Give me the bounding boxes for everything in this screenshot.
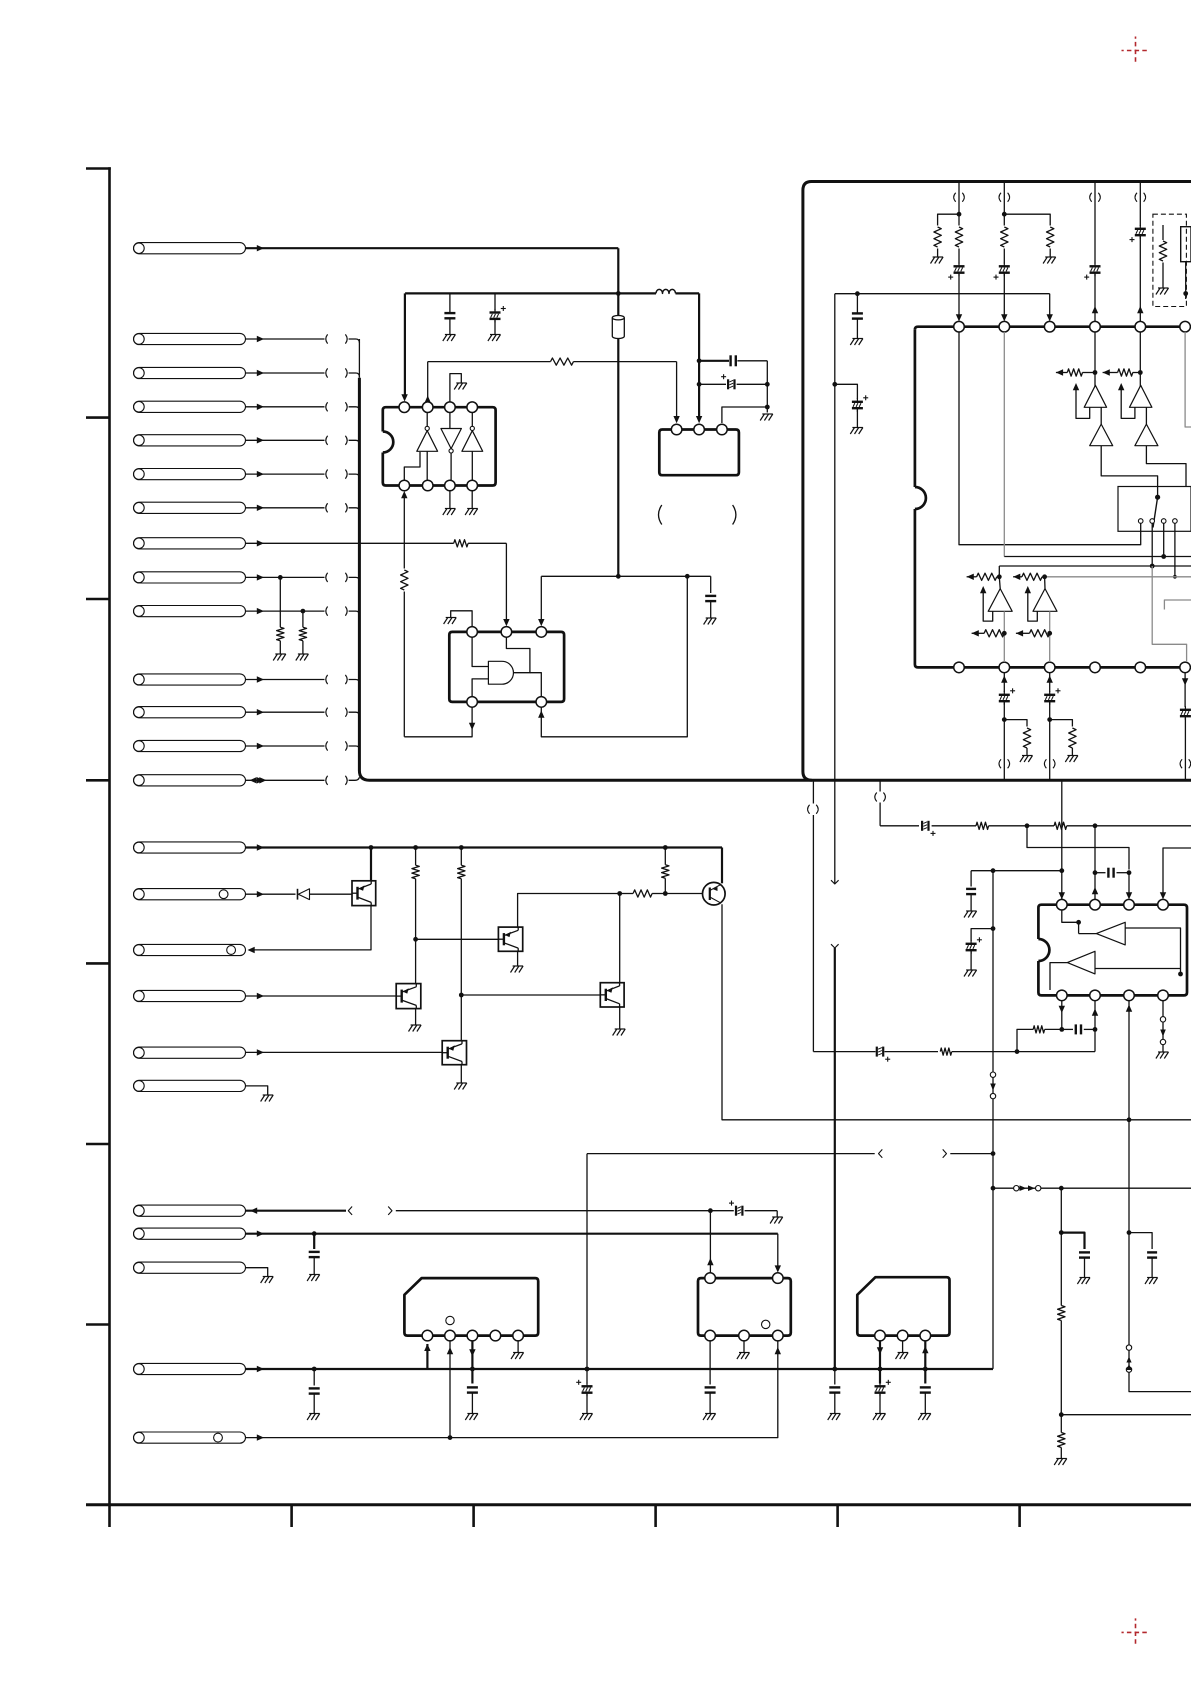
wire drop B [1003, 182, 1005, 226]
wire bias line 825 [880, 825, 919, 827]
wire pinB column [1003, 332, 1005, 557]
resistor R22 [1058, 1306, 1065, 1321]
connector pin P20 [134, 1080, 246, 1091]
wire node 587 [586, 1154, 588, 1384]
junction [1127, 1230, 1132, 1235]
jumper J2 [1014, 1186, 1019, 1191]
wire IC7 pin b3 to P25 [246, 1341, 778, 1438]
ground [309, 1274, 320, 1276]
wire P9 to bus [246, 576, 325, 578]
IC4 pin top 4 [1090, 321, 1101, 332]
wire [766, 361, 768, 413]
ground [706, 617, 717, 619]
IC2 pin3 top [536, 627, 547, 638]
wire Q7 emitter [460, 1065, 462, 1083]
IC8 pin 1 [875, 1330, 886, 1341]
connector pin P24 [134, 1363, 246, 1374]
border frame bottom tick [1018, 1505, 1021, 1527]
junction [991, 868, 996, 873]
wire Q8 collector [619, 894, 621, 983]
op-amp A2b [1135, 424, 1158, 446]
wire [998, 566, 1000, 577]
ground [1056, 1458, 1067, 1460]
wire P13 to bus [246, 745, 325, 747]
capacitor C26 electrolytic [586, 1383, 588, 1387]
wire Q1 collector [370, 848, 372, 881]
connector pin P19 [134, 1047, 246, 1058]
junction [312, 1367, 317, 1372]
wire P7 to bus [246, 507, 325, 509]
junction [765, 405, 770, 410]
wire P23 [246, 1268, 268, 1276]
IC4 trim row 1 [1056, 369, 1063, 375]
break [1044, 759, 1046, 768]
resistor R3 [551, 358, 574, 365]
junction [369, 845, 374, 850]
wire P18 to Q5 base [246, 995, 397, 997]
op-amp A6 [1067, 951, 1095, 974]
resistor R14 [1001, 227, 1008, 247]
wire P1 VCC line [246, 247, 619, 249]
wire bus 554 [1004, 556, 1191, 558]
resistor R7 [412, 865, 419, 879]
IC5 internal wires [1062, 910, 1079, 922]
junction [832, 382, 837, 387]
IC2 pin1 top [467, 627, 478, 638]
ground [263, 1094, 274, 1096]
IC1 pin7 bottom [445, 480, 456, 491]
wire to IC3 pin1 [574, 361, 677, 363]
wire IC6 pin2 [449, 1341, 451, 1438]
signal line 1051 [813, 1051, 875, 1053]
IC2 internal wires [472, 637, 488, 666]
wire VDD column break [834, 780, 836, 884]
wire [1049, 249, 1051, 257]
wire Q2 emitter long [722, 904, 1191, 1120]
wire branch [938, 214, 959, 225]
junction [470, 1367, 475, 1372]
junction [459, 845, 464, 850]
wire IC5 pin b4 jumper [1162, 1001, 1164, 1017]
wire to IC5 pin3 [1027, 826, 1129, 870]
junction [685, 574, 690, 579]
wire [1094, 272, 1096, 321]
connector pin P12 [134, 707, 246, 718]
IC6 pin 5 [513, 1330, 524, 1341]
IC5 body [1038, 905, 1187, 996]
wire column 1061 [1060, 1188, 1062, 1305]
IC4 trim row 3 [972, 630, 979, 636]
wire IC1 pin2 out [427, 362, 429, 401]
wire [302, 611, 304, 627]
IC5 pin top 2 [1090, 899, 1101, 910]
wire gray col1 [1003, 611, 1005, 662]
capacitor C1 [449, 293, 451, 313]
wire node column 993 [992, 871, 994, 1072]
wire Q8 emitter [619, 1007, 621, 1029]
IC2 pin5 bottom [536, 697, 547, 708]
branch resistor R17 [1050, 720, 1073, 727]
wire branch [971, 870, 1062, 872]
wire to IC7 pin t2 [777, 1234, 779, 1270]
wire [958, 272, 960, 318]
junction [1059, 868, 1064, 873]
wire [1094, 873, 1096, 900]
resistor R15 [1162, 225, 1164, 240]
ground [298, 653, 309, 655]
IC8 body [857, 1277, 949, 1335]
wire R7 branch [415, 848, 417, 866]
wire VDD vertical [834, 294, 836, 781]
label parenthesis left [659, 505, 662, 525]
wire drop A [958, 182, 960, 226]
shield block right border [803, 182, 1191, 781]
branch cap [1061, 1233, 1084, 1249]
IC1 pin5 bottom [399, 480, 410, 491]
IC6 body [404, 1278, 538, 1336]
wire to IC5 pin1 [1061, 780, 1063, 899]
op-amp A2 [1130, 385, 1152, 407]
resistor R4 [401, 570, 408, 590]
junction [312, 1231, 317, 1236]
junction [413, 845, 418, 850]
capacitor C9 electrolytic [1139, 225, 1141, 229]
wire IC1 pin3 ground [450, 374, 461, 402]
inner box [1181, 227, 1191, 262]
junction [1059, 1230, 1064, 1235]
IC5 pin top 4 [1158, 899, 1169, 910]
wire Q3 emitter [517, 951, 519, 965]
junction [459, 993, 464, 998]
registration mark [1122, 37, 1150, 65]
IC6 pin 1 [422, 1330, 433, 1341]
wire [1094, 332, 1096, 387]
wire IC4 pin b3 [1047, 676, 1053, 683]
signal line 1188 [993, 1187, 1014, 1189]
resistor R12 [955, 227, 962, 247]
junction [616, 291, 621, 296]
feedback A4 [1028, 589, 1038, 622]
wire stub break 813 [812, 780, 814, 803]
capacitor C25 [467, 1386, 478, 1388]
junction [1093, 1027, 1098, 1032]
ground [966, 969, 977, 971]
wire IC1 pin7 ground [449, 491, 451, 508]
capacitor C11 electrolytic [856, 398, 858, 402]
IC6 pin 2 [445, 1330, 456, 1341]
border frame bottom edge [86, 1503, 1191, 1506]
wire to IC5 pin2 [1094, 826, 1096, 873]
wire [1003, 249, 1005, 264]
transistor Q7 [442, 1041, 466, 1065]
wire Q8 base [461, 994, 600, 996]
IC7 index circle [762, 1320, 770, 1328]
IC1 pin4 top [467, 402, 478, 413]
IC4 pin bottom 1 [954, 662, 965, 673]
ground [852, 338, 863, 340]
wire [1100, 407, 1102, 424]
jumper J3 [1128, 1233, 1130, 1345]
connector pin P16 [134, 889, 246, 900]
junction [585, 1367, 590, 1372]
capacitor C31 [313, 1369, 315, 1386]
IC3 pin1 [671, 424, 682, 435]
shield block left/bottom border [359, 378, 1191, 781]
wire IC5 pin b2 [1094, 1001, 1096, 1052]
wire IC1 pin8 ground [471, 491, 473, 508]
wire IC7 pin b1 [709, 1341, 711, 1385]
op-amp A1b [1090, 424, 1113, 446]
border frame bottom tick [654, 1505, 657, 1527]
wire to IC7 pin t1 [709, 1211, 711, 1273]
junction [697, 358, 702, 363]
wire P21 [246, 1210, 347, 1212]
ground [456, 382, 467, 384]
wire bus 564 [999, 565, 1191, 567]
capacitor C13 electrolytic [1049, 691, 1051, 695]
capacitor C5 [687, 575, 710, 577]
wire IC4 pin b2 [1001, 676, 1007, 683]
capacitor C17 [970, 871, 972, 887]
ground [446, 617, 457, 619]
junction [1025, 823, 1030, 828]
ground [772, 1216, 783, 1218]
border frame top tick [86, 167, 111, 170]
wire [1185, 262, 1187, 299]
ground [852, 427, 863, 429]
capacitor C4 electrolytic [699, 383, 726, 385]
ground [830, 1413, 841, 1415]
switch contact [1173, 519, 1178, 524]
IC2 pin4 bottom [467, 697, 478, 708]
ground [705, 1413, 716, 1415]
connector pin P2 [134, 333, 246, 344]
wire P24 rail [246, 1368, 994, 1370]
border frame bottom tick [472, 1505, 475, 1527]
junction [1150, 564, 1155, 569]
IC6 index circle [446, 1316, 454, 1324]
op-amp A3 [988, 589, 1012, 612]
junction [1183, 291, 1188, 296]
capacitor C15 series [921, 821, 923, 831]
ground [920, 1413, 931, 1415]
connector pin P17 [134, 944, 246, 955]
ground [1147, 1277, 1158, 1279]
connector pin P3 [134, 367, 246, 378]
op-amp A5 [1096, 922, 1125, 945]
resistor R10 [662, 865, 669, 879]
junction [1127, 870, 1132, 875]
connector pin P7 [134, 502, 246, 513]
IC1 pin2 top [422, 402, 433, 413]
resistor R11 [934, 227, 941, 247]
ground [445, 508, 456, 510]
ground [1022, 755, 1033, 757]
wire R8 branch [460, 848, 462, 866]
wire [1003, 272, 1005, 318]
junction [1173, 575, 1177, 579]
wire Q3 base [416, 938, 499, 940]
ground [739, 1352, 750, 1354]
op-amp A4 [1033, 589, 1057, 612]
wire branch [835, 384, 858, 399]
wire drop C [1094, 182, 1096, 264]
IC5 pin top 1 [1057, 899, 1068, 910]
branch [971, 929, 993, 941]
wire [1145, 407, 1147, 424]
break [999, 759, 1001, 768]
junction [855, 291, 860, 296]
ground [513, 965, 524, 967]
junction [617, 891, 622, 896]
wire Q1 emitter to P17 [251, 906, 371, 950]
IC4 pin top 6 [1180, 321, 1191, 332]
wire IC6 pin5 [517, 1341, 519, 1352]
wire IC8 pin1 [879, 1341, 881, 1384]
junction [1093, 823, 1098, 828]
wire stub break 880 [879, 780, 881, 791]
wire bus 576 gray [1045, 576, 1191, 578]
resistor R5 [277, 627, 284, 641]
ferrite bead L2 [612, 318, 624, 339]
wire IC5 pin b1 [1059, 1006, 1065, 1013]
connector pin P21 [134, 1205, 246, 1216]
wire IC7 pin b2 [743, 1341, 745, 1352]
wire [937, 249, 939, 257]
IC7 pin t1 [705, 1273, 716, 1284]
ground [456, 1082, 467, 1084]
ground [966, 910, 977, 912]
IC1 pin1 top [399, 402, 410, 413]
junction [1059, 1027, 1064, 1032]
signal line 1153 [587, 1153, 875, 1155]
ground [1080, 1277, 1091, 1279]
IC5 pin bottom 1 [1057, 990, 1068, 1001]
IC4 pin top 1 [954, 321, 965, 332]
wire P22 [246, 1233, 778, 1235]
wire P3 to bus [246, 372, 325, 374]
IC3 pin2 [694, 424, 705, 435]
ground [263, 1276, 274, 1278]
switch contact [1150, 519, 1155, 524]
junction [991, 1186, 996, 1191]
IC2 pin2 top [501, 627, 512, 638]
wire P2 to bus [246, 338, 325, 340]
wire pinA to contact [959, 332, 1141, 545]
IC7 pin b2 [739, 1330, 750, 1341]
feedback A2 [1121, 386, 1135, 419]
wire [1061, 1414, 1191, 1416]
inverter IC1-A [417, 431, 438, 452]
border frame bottom tick [836, 1505, 839, 1527]
switch contact [1138, 519, 1143, 524]
ground [445, 334, 456, 336]
IC5 pin bottom 4 [1158, 990, 1169, 1001]
wire P14 to bus [246, 779, 325, 781]
border frame left tick [86, 1323, 110, 1326]
border frame bottom tick [290, 1505, 293, 1527]
transistor Q3 [498, 927, 522, 951]
wire VCC to IC1 pin1 [404, 293, 406, 398]
capacitor C12 electrolytic [1003, 691, 1005, 695]
wire P6 to bus [246, 473, 325, 475]
junction [1059, 1186, 1064, 1191]
wire contact2 drop [1151, 523, 1153, 566]
wire contact4 drop [1174, 523, 1176, 577]
ground [467, 508, 478, 510]
connector pin P11 [134, 674, 246, 685]
capacitor C22 [1147, 1251, 1157, 1253]
wire P16 to diode [246, 893, 296, 895]
wire [958, 249, 960, 264]
wire contact3 drop [1163, 523, 1165, 556]
transistor Q2 [703, 882, 726, 905]
ground [933, 256, 944, 258]
wire IC8 pin2 [902, 1341, 904, 1352]
border frame left edge [108, 167, 111, 1527]
IC8 pin 2 [897, 1330, 908, 1341]
capacitor C30 [834, 1369, 836, 1385]
wire [279, 577, 281, 627]
IC4 pin bottom 6 [1180, 662, 1191, 673]
IC1 internal wires [426, 413, 428, 427]
junction [1093, 870, 1098, 875]
IC4 body [915, 327, 1191, 330]
diode D1 [297, 889, 299, 900]
wire loop to IC2 pin5 [541, 576, 687, 737]
ground [1158, 1051, 1169, 1053]
ground [1045, 256, 1056, 258]
resistor R8 [458, 865, 465, 879]
IC5 pin bottom 3 [1124, 990, 1135, 1001]
wire P15 supply rail [246, 846, 723, 848]
border frame left tick [86, 416, 110, 419]
ground [275, 653, 286, 655]
junction [957, 212, 962, 217]
border frame left tick [86, 1143, 110, 1146]
wire [1139, 235, 1141, 321]
junction [708, 1208, 713, 1213]
capacitor C28 electrolytic [879, 1383, 881, 1387]
junction [1047, 717, 1052, 722]
ground [1067, 755, 1078, 757]
wire A1b out [1101, 446, 1157, 498]
junction [301, 609, 306, 614]
junction [697, 382, 702, 387]
IC4 pin top 5 [1135, 321, 1146, 332]
junction [1155, 495, 1160, 500]
junction [991, 926, 996, 931]
ground [875, 1413, 886, 1415]
switch contact [1161, 519, 1166, 524]
wire Q2 base [665, 893, 702, 895]
branch resistor R16 [1004, 720, 1027, 727]
ground [582, 1413, 593, 1415]
registration mark [1122, 1618, 1150, 1646]
capacitor C24 [313, 1234, 315, 1249]
gate IC2 body [449, 632, 564, 702]
wire gray col2 [1049, 611, 1051, 662]
connector pin P1 [134, 243, 246, 254]
ground [467, 1413, 478, 1415]
wire gray switch right [1152, 566, 1186, 662]
wire VCC to IC2 pin3 [541, 575, 618, 577]
wire IC6 pin3 [471, 1341, 473, 1384]
capacitor C3 [699, 360, 729, 362]
wire P10 to bus [246, 610, 325, 612]
resistor R18 [976, 822, 989, 829]
junction [991, 1151, 996, 1156]
